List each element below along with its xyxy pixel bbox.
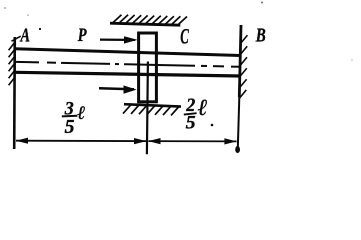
svg-text:C: C: [180, 23, 189, 48]
svg-text:5: 5: [65, 116, 75, 138]
svg-text:ℓ: ℓ: [77, 103, 85, 124]
svg-text:A: A: [19, 26, 30, 47]
svg-text:ℓ: ℓ: [198, 95, 208, 120]
svg-text:B: B: [255, 25, 266, 47]
svg-text:P: P: [77, 26, 87, 46]
svg-text:5: 5: [186, 112, 197, 133]
